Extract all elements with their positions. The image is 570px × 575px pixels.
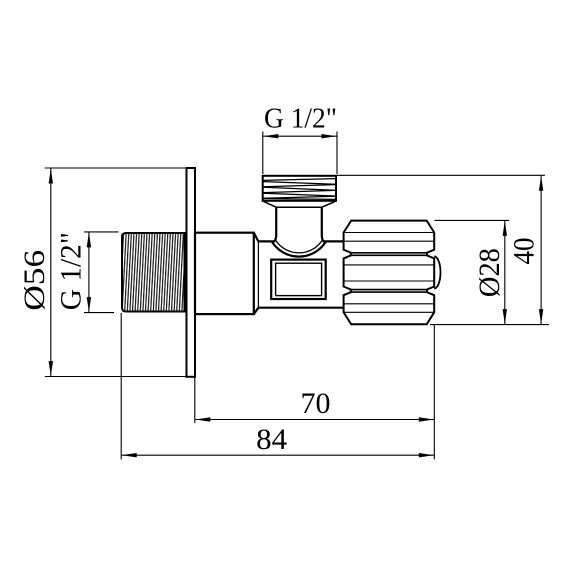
top thread G1/2 (stem)	[263, 176, 336, 201]
svg-text:G 1/2": G 1/2"	[55, 232, 88, 310]
body tube	[195, 233, 254, 314]
svg-text:40: 40	[508, 238, 541, 265]
svg-text:Ø28: Ø28	[473, 248, 506, 297]
left male thread G1/2 (hatched)	[122, 233, 185, 312]
dimension: &Oslash;56 left	[45, 168, 187, 377]
dimension: &Oslash;28 right	[430, 220, 549, 324]
wall plate (flange)	[187, 168, 196, 377]
dimension: top G 1/2"	[263, 132, 337, 175]
dome (valve bonnet) and neck	[272, 207, 325, 257]
dimension: 70 bottom	[195, 325, 434, 460]
svg-text:Ø56: Ø56	[18, 250, 51, 311]
collar between top thread and neck	[263, 201, 336, 207]
svg-text:G 1/2": G 1/2"	[264, 103, 337, 135]
svg-text:70: 70	[301, 387, 331, 420]
dimension: 40 right	[337, 175, 545, 324]
square frame (valve front plate)	[271, 260, 326, 299]
handle right cap bump	[434, 256, 440, 288]
dimension: left G 1/2" (thread length)	[84, 232, 119, 313]
handle groove lines	[351, 253, 427, 292]
center section (valve block)	[254, 233, 344, 314]
handle (knurled nut) outline	[344, 221, 435, 325]
svg-text:84: 84	[256, 423, 287, 456]
dimension: 84 bottom	[121, 313, 434, 459]
handle band lines	[344, 233, 435, 313]
